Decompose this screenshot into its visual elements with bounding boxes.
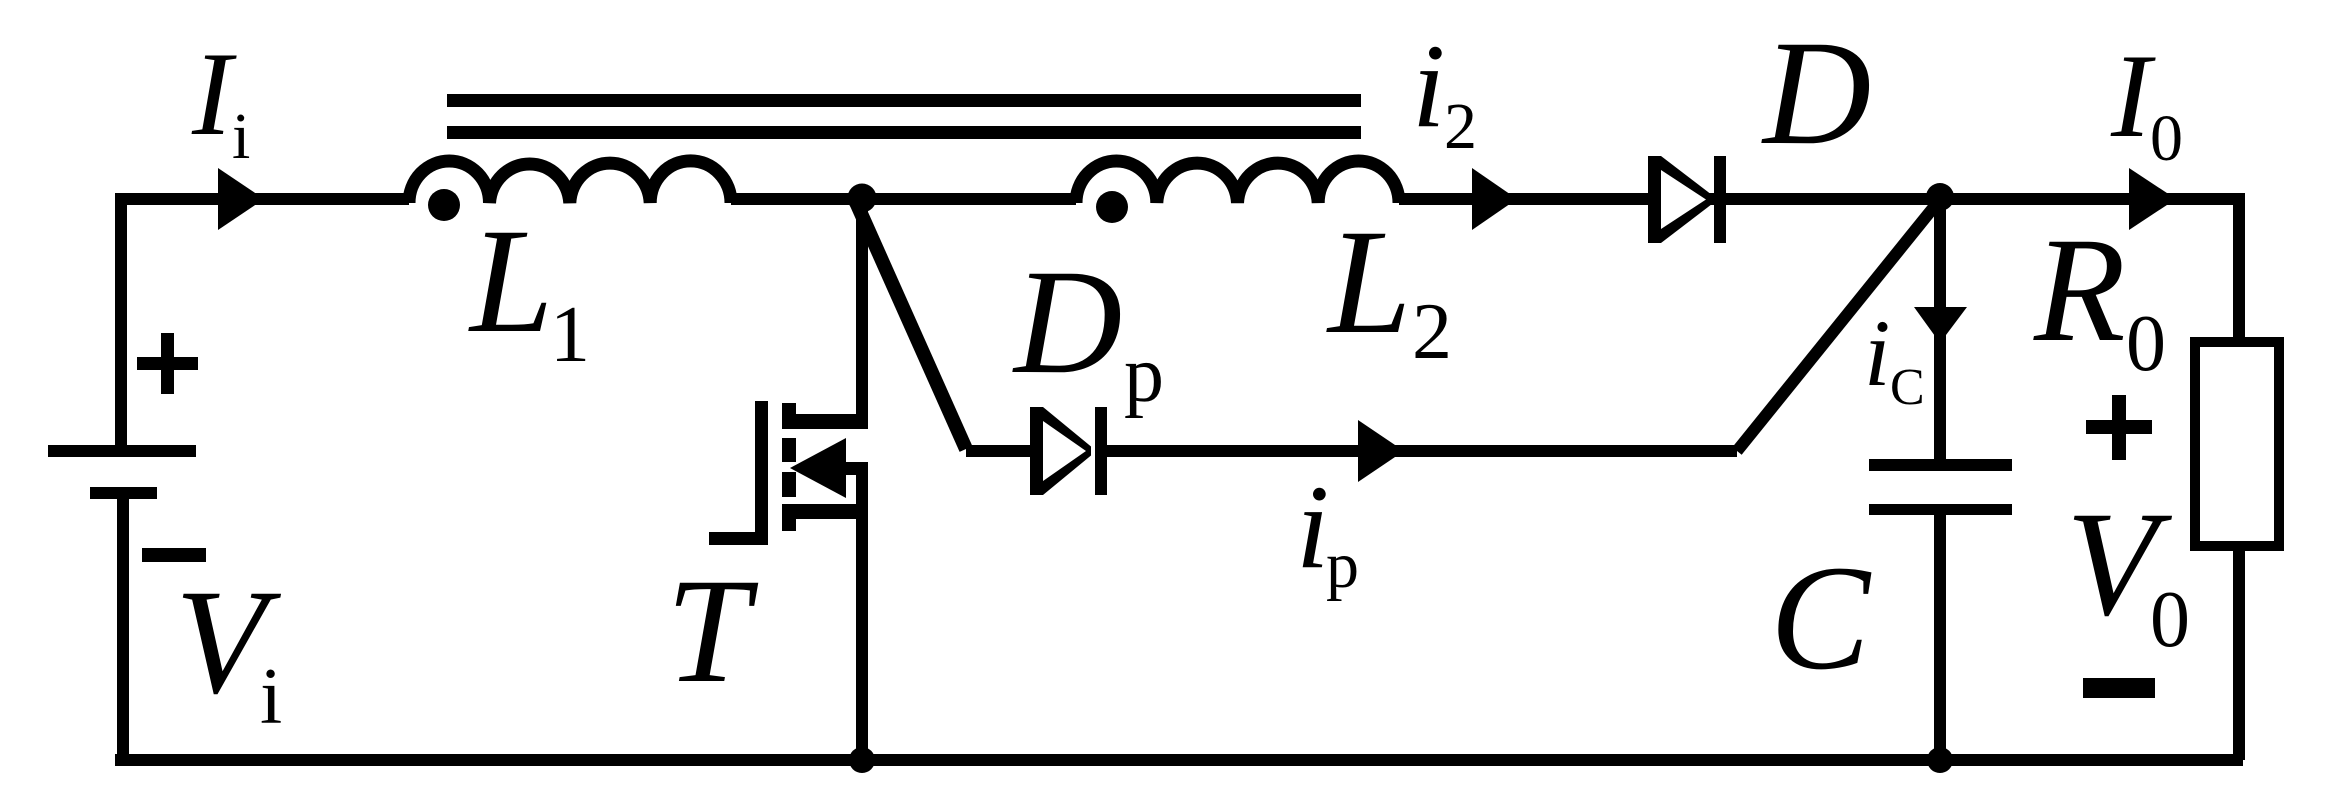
transistor T source contact bbox=[790, 504, 862, 519]
diode Dp cathode bar bbox=[1095, 407, 1107, 495]
node B junction dot bbox=[1926, 183, 1954, 211]
label R0 bbox=[2033, 207, 2166, 388]
svg-text:0: 0 bbox=[2150, 102, 2183, 175]
svg-text:p: p bbox=[1124, 331, 1164, 419]
wire top from L2 to right corner bbox=[1399, 193, 2239, 205]
label Dp bbox=[1012, 239, 1164, 419]
battery Vi positive plate bbox=[48, 445, 196, 457]
svg-text:2: 2 bbox=[1444, 90, 1477, 163]
svg-text:i: i bbox=[1412, 19, 1445, 152]
wire capacitor C bottom plate to bottom rail bbox=[1934, 515, 1946, 760]
wire diagonal from ip wire up to node B bbox=[1737, 197, 1942, 451]
svg-text:C: C bbox=[1890, 359, 1925, 416]
svg-text:D: D bbox=[1761, 10, 1871, 176]
svg-text:L: L bbox=[468, 198, 553, 364]
svg-text:i: i bbox=[260, 653, 282, 741]
output minus sign bbox=[2083, 678, 2155, 698]
node A junction dot bbox=[848, 184, 877, 213]
current arrow I0 bbox=[2129, 168, 2176, 230]
svg-text:2: 2 bbox=[1412, 288, 1452, 376]
current arrow i2 bbox=[1472, 168, 1517, 230]
diode Dp triangle bbox=[1030, 407, 1091, 495]
wire bottom return rail bbox=[115, 754, 2243, 766]
wire transistor T drain vertical bbox=[856, 199, 868, 429]
current arrow ip bbox=[1358, 420, 1404, 482]
svg-text:0: 0 bbox=[2126, 300, 2166, 388]
battery Vi negative plate bbox=[90, 487, 157, 499]
transistor T channel dash 3 bbox=[782, 472, 796, 497]
wire node B down to capacitor C top plate bbox=[1934, 196, 1946, 459]
battery Vi minus sign bbox=[142, 548, 206, 562]
transistor T body contact bbox=[846, 462, 868, 475]
label i2 bbox=[1412, 19, 1477, 163]
transistor T body arrow bbox=[790, 438, 846, 498]
transformer core bar upper bbox=[447, 94, 1361, 107]
svg-text:T: T bbox=[666, 548, 759, 714]
svg-text:i: i bbox=[1864, 300, 1890, 406]
wire left vertical corner to battery plus plate bbox=[115, 193, 127, 451]
label I0 bbox=[2110, 29, 2183, 175]
current arrow Ii bbox=[218, 168, 264, 230]
output plus sign bbox=[2086, 395, 2152, 460]
wire diagonal node A to Dp anode bbox=[855, 200, 966, 449]
transformer core bar lower bbox=[447, 126, 1361, 139]
label T bbox=[666, 548, 759, 714]
node C junction dot bottom left bbox=[849, 747, 875, 773]
svg-text:i: i bbox=[232, 100, 250, 173]
battery Vi plus sign bbox=[137, 333, 198, 394]
wire top left from source corner to L1 bbox=[115, 193, 409, 205]
svg-text:0: 0 bbox=[2150, 576, 2190, 664]
label L1 bbox=[468, 198, 590, 379]
transistor T channel dash 2 bbox=[782, 438, 796, 462]
svg-text:R: R bbox=[2033, 207, 2126, 373]
diode D triangle bbox=[1648, 156, 1712, 243]
wire right vertical corner to R0 top bbox=[2233, 193, 2245, 342]
label iC bbox=[1864, 300, 1925, 416]
svg-text:L: L bbox=[1326, 199, 1411, 365]
wire top between L1 and node A bbox=[731, 193, 1076, 205]
transistor T channel dash 4 bbox=[782, 504, 796, 531]
transistor T channel dash 1 bbox=[782, 403, 796, 429]
transistor T gate lead bbox=[709, 532, 768, 545]
wire battery minus plate to bottom corner bbox=[117, 493, 129, 760]
svg-text:p: p bbox=[1326, 529, 1359, 602]
transistor T gate electrode bar bbox=[755, 401, 768, 545]
svg-text:C: C bbox=[1770, 535, 1872, 701]
transistor T drain contact bbox=[790, 414, 868, 429]
inductor L2 polarity dot bbox=[1096, 191, 1128, 223]
wire R0 bottom to bottom right corner bbox=[2233, 551, 2245, 760]
label Vi bbox=[175, 559, 282, 741]
label Ii bbox=[191, 27, 250, 173]
label C bbox=[1770, 535, 1872, 701]
inductor L2 winding bbox=[1076, 161, 1399, 203]
current arrow iC downward bbox=[1914, 307, 1967, 343]
wire ip horizontal from Dp cathode bbox=[1105, 445, 1737, 457]
svg-text:D: D bbox=[1012, 239, 1122, 405]
label V0 bbox=[2066, 481, 2190, 664]
inductor L1 polarity dot bbox=[428, 189, 460, 221]
resistor R0 body bbox=[2195, 342, 2279, 546]
capacitor C bottom plate bbox=[1869, 504, 2012, 515]
capacitor C top plate bbox=[1869, 459, 2012, 471]
svg-text:I: I bbox=[191, 27, 237, 160]
inductor L1 winding bbox=[409, 161, 731, 203]
node D junction dot bottom right bbox=[1927, 747, 1953, 773]
svg-text:1: 1 bbox=[550, 291, 590, 379]
svg-text:i: i bbox=[1296, 460, 1329, 593]
label D bbox=[1761, 10, 1871, 176]
diode D cathode bar bbox=[1714, 156, 1726, 243]
wire Dp anode horizontal bbox=[966, 445, 1032, 457]
label ip bbox=[1296, 460, 1359, 602]
wire transistor T source vertical bbox=[856, 465, 868, 760]
label L2 bbox=[1326, 199, 1452, 376]
